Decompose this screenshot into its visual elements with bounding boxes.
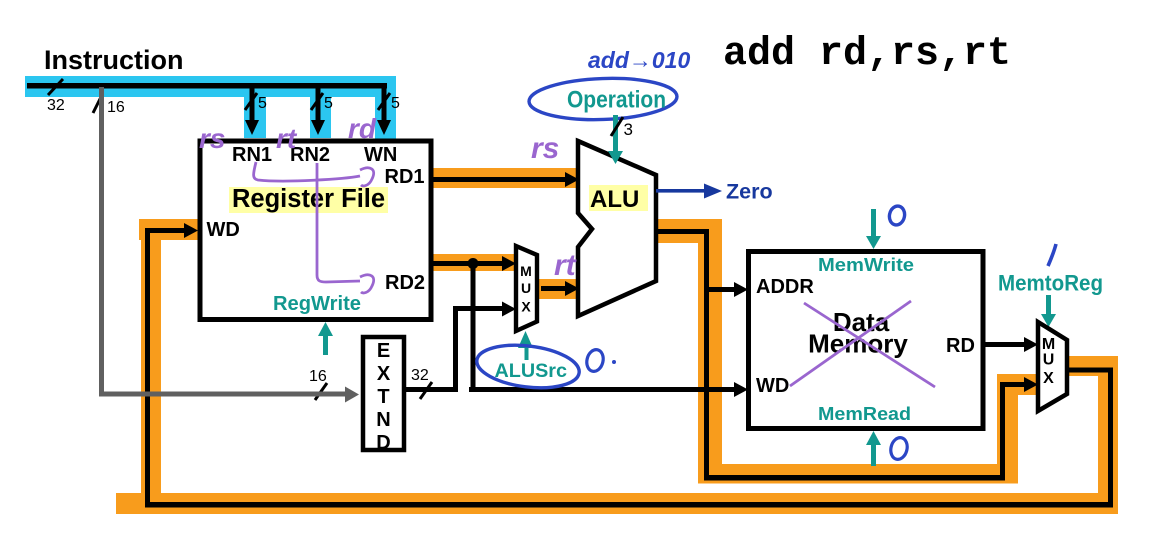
node junction on RD2 wire <box>468 258 479 269</box>
wire: orange RD2 to MUX <box>432 254 516 271</box>
svg-text:ALU: ALU <box>590 186 639 213</box>
svg-text:Register File: Register File <box>232 185 385 213</box>
wire: Data Memory RD to right MUX <box>983 337 1038 352</box>
ALU yellow highlight <box>589 185 648 211</box>
wire: junction to Data Memory WD <box>469 263 748 397</box>
wire: orange MUX output to ALU <box>537 279 579 299</box>
Register File yellow highlight <box>229 187 388 213</box>
svg-text:N: N <box>376 409 390 431</box>
EXTND box <box>363 337 404 450</box>
label Data Memory <box>808 307 908 359</box>
svg-text:X: X <box>1043 370 1054 387</box>
slash 32 at EXTND output <box>411 367 432 399</box>
svg-text:Instruction: Instruction <box>44 45 184 75</box>
svg-text:WD: WD <box>756 375 789 397</box>
svg-text:ADDR: ADDR <box>756 276 814 298</box>
svg-text:3: 3 <box>624 120 633 139</box>
mux M1 (ALUSrc mux) <box>516 246 537 331</box>
label EXTND letters <box>376 340 391 454</box>
teal arrow Operation into ALU <box>608 115 623 164</box>
svg-text:E: E <box>377 340 390 362</box>
wire: orange ALU output loop to right MUX <box>656 219 1039 484</box>
svg-text:MemRead: MemRead <box>818 404 911 424</box>
svg-text:ALUSrc: ALUSrc <box>495 361 568 382</box>
svg-text:rs: rs <box>199 123 225 154</box>
svg-text:X: X <box>377 363 391 385</box>
svg-text:MemtoReg: MemtoReg <box>998 271 1103 296</box>
svg-text:32: 32 <box>47 97 65 114</box>
svg-text:rt: rt <box>554 249 578 282</box>
svg-text:M: M <box>520 263 532 279</box>
svg-text:RegWrite: RegWrite <box>273 293 361 315</box>
svg-text:Memory: Memory <box>808 329 908 359</box>
handwritten 0 near MemWrite <box>888 205 907 227</box>
svg-text:Operation: Operation <box>567 87 666 114</box>
svg-text:M: M <box>1042 336 1055 353</box>
label MUX on M1 <box>520 263 532 315</box>
wire: orange right MUX output feedback to WD <box>116 219 1118 514</box>
purple X over data memory <box>790 301 935 387</box>
ALUSrc blue oval <box>474 340 581 393</box>
svg-text:WN: WN <box>364 144 397 166</box>
svg-text:16: 16 <box>309 368 327 385</box>
teal arrow MemtoReg into mux M2 <box>1041 295 1056 327</box>
svg-text:RN1: RN1 <box>232 144 272 166</box>
svg-text:32: 32 <box>411 367 429 384</box>
svg-text:RD: RD <box>946 335 975 357</box>
bus width slash 32 <box>47 79 65 114</box>
handwritten 0. near ALUSrc <box>585 348 616 373</box>
teal arrow MemWrite <box>866 209 881 249</box>
slash 16 at EXTND input <box>309 368 327 400</box>
wire: EXTND output to MUX input 2 <box>406 302 516 393</box>
bus width slash 16 <box>93 97 125 116</box>
svg-text:X: X <box>521 299 531 315</box>
wire: RN2 arrow from bus <box>311 85 333 135</box>
instruction bus (cyan highlight) <box>25 76 396 139</box>
wire: gray line from bus to EXTND <box>99 87 359 403</box>
purple annotation RN2 to RD2 <box>317 163 374 293</box>
wire: orange RD1 to ALU <box>432 168 579 188</box>
handwritten 0 near MemRead <box>889 436 910 461</box>
teal arrow RegWrite into register file <box>318 322 333 355</box>
slash 3 on operation wire <box>611 117 633 139</box>
handwritten 1 near MemtoReg <box>1048 244 1056 266</box>
wire: WN arrow from bus <box>377 85 400 135</box>
register file box <box>200 141 431 320</box>
svg-text:rs: rs <box>531 132 559 165</box>
wire: black line of MUX output feedback <box>145 223 1113 508</box>
svg-text:T: T <box>377 386 389 408</box>
svg-text:D: D <box>376 432 390 454</box>
svg-text:add rd,rs,rt: add rd,rs,rt <box>723 32 1011 77</box>
svg-text:5: 5 <box>324 95 333 112</box>
wire: instruction bus black line <box>27 83 387 89</box>
teal arrow ALUSrc into mux M1 <box>518 331 533 360</box>
Operation blue oval <box>528 76 677 122</box>
svg-text:16: 16 <box>107 99 125 116</box>
svg-text:Zero: Zero <box>726 180 773 204</box>
mux M2 (MemtoReg mux) <box>1038 322 1067 411</box>
svg-text:U: U <box>1043 352 1055 369</box>
svg-text:RD2: RD2 <box>385 272 425 294</box>
svg-text:5: 5 <box>258 95 267 112</box>
svg-text:rt: rt <box>276 123 298 154</box>
svg-text:rd: rd <box>348 113 377 144</box>
svg-text:RD1: RD1 <box>385 166 425 188</box>
teal arrow MemRead <box>866 431 881 466</box>
wire: RN1 arrow from bus <box>245 85 267 135</box>
svg-text:U: U <box>521 280 531 296</box>
purple annotation RN1 to RD1 <box>254 162 374 186</box>
svg-text:WD: WD <box>207 219 240 241</box>
svg-text:add→010: add→010 <box>588 47 690 73</box>
data memory box <box>749 252 984 429</box>
label MUX on M2 <box>1042 336 1055 387</box>
ALU shape <box>578 141 656 316</box>
svg-text:5: 5 <box>391 95 400 112</box>
wire: Zero output <box>656 184 722 199</box>
wire: ADDR branch from ALU output <box>704 282 748 297</box>
svg-text:MemWrite: MemWrite <box>818 255 914 275</box>
